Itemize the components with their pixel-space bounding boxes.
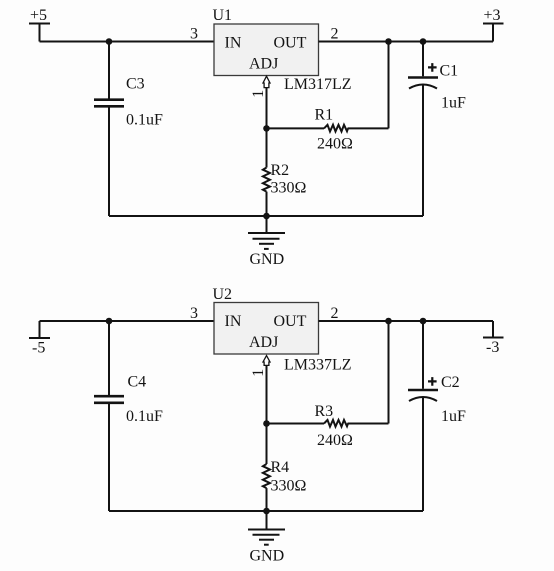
plus mark C2 [428, 377, 437, 386]
wire R1 up to output [388, 42, 390, 129]
svg-text:3: 3 [190, 305, 198, 322]
node junction C3 tap [106, 38, 113, 45]
node junction C2 tap [420, 318, 427, 325]
pin 1 arrow (U2 ADJ) [263, 356, 270, 366]
node junction ADJ/R3/R4 [263, 420, 270, 427]
svg-text:ADJ: ADJ [249, 56, 278, 73]
capacitor C4 [94, 321, 124, 511]
plus mark C1 [428, 63, 437, 72]
svg-text:U1: U1 [213, 7, 233, 24]
svg-text:330Ω: 330Ω [271, 180, 307, 197]
op-amp U2 regulator box [214, 303, 319, 355]
svg-text:+5: +5 [30, 7, 47, 24]
wire ADJ pin down (U2) [266, 365, 268, 423]
svg-text:240Ω: 240Ω [317, 432, 353, 449]
svg-text:1: 1 [250, 369, 267, 377]
power terminal -3 [483, 321, 504, 356]
resistor R4 [263, 424, 270, 512]
node junction C1 tap [420, 38, 427, 45]
svg-text:GND: GND [250, 548, 285, 565]
ground symbol bottom [248, 511, 285, 545]
op-amp U1 regulator box [214, 24, 319, 76]
ground symbol top [248, 216, 285, 249]
svg-text:LM317LZ: LM317LZ [284, 76, 352, 93]
power terminal +3 [483, 7, 504, 42]
capacitor C3 [94, 42, 124, 217]
svg-text:0.1uF: 0.1uF [126, 408, 163, 425]
svg-text:1uF: 1uF [441, 408, 466, 425]
svg-text:C1: C1 [440, 63, 459, 80]
svg-text:1: 1 [250, 90, 267, 98]
node junction rail/GND [263, 213, 270, 220]
capacitor C2 (polarized) [408, 321, 438, 511]
svg-text:2: 2 [331, 26, 339, 43]
svg-text:3: 3 [190, 26, 198, 43]
svg-text:-5: -5 [32, 340, 45, 357]
svg-text:C2: C2 [441, 374, 460, 391]
svg-text:R4: R4 [271, 459, 290, 476]
svg-text:R3: R3 [315, 403, 334, 420]
node junction R3 top [385, 318, 392, 325]
svg-text:2: 2 [331, 305, 339, 322]
svg-text:OUT: OUT [274, 35, 307, 52]
wire U1 pin 2 output [319, 41, 494, 43]
svg-text:C3: C3 [126, 76, 145, 93]
resistor R3 [267, 420, 389, 427]
wire ground rail top circuit [109, 215, 423, 217]
svg-text:1uF: 1uF [441, 95, 466, 112]
svg-text:OUT: OUT [274, 313, 307, 330]
power terminal -5 [29, 321, 50, 357]
svg-text:ADJ: ADJ [249, 334, 278, 351]
svg-text:-3: -3 [486, 339, 499, 356]
wire ADJ pin down [266, 88, 268, 129]
power terminal +5 [29, 7, 50, 42]
svg-text:+3: +3 [484, 7, 501, 24]
svg-text:R2: R2 [271, 162, 290, 179]
node junction rail/GND bottom [263, 508, 270, 515]
svg-text:GND: GND [250, 251, 285, 268]
svg-text:IN: IN [225, 35, 242, 52]
pin 1 arrow (U1 ADJ) [263, 76, 270, 87]
svg-text:IN: IN [225, 313, 242, 330]
wire +5 to U1 pin 3 [40, 41, 215, 43]
svg-text:C4: C4 [128, 374, 147, 391]
svg-text:R1: R1 [315, 107, 334, 124]
wire R3 up to output [388, 321, 390, 424]
resistor R2 [263, 128, 270, 216]
svg-text:LM337LZ: LM337LZ [284, 357, 352, 374]
svg-text:0.1uF: 0.1uF [126, 112, 163, 129]
node junction R1 top [385, 38, 392, 45]
node junction ADJ/R1/R2 [263, 125, 270, 132]
node junction C4 tap [106, 318, 113, 325]
wire U2 pin 2 output [319, 320, 494, 322]
svg-text:240Ω: 240Ω [317, 136, 353, 153]
svg-text:U2: U2 [213, 286, 233, 303]
wire -5 to U2 pin 3 [40, 320, 215, 322]
wire ground rail bottom circuit [109, 510, 423, 512]
capacitor C1 (polarized) [408, 42, 438, 217]
resistor R1 [267, 125, 389, 132]
svg-text:330Ω: 330Ω [271, 478, 307, 495]
